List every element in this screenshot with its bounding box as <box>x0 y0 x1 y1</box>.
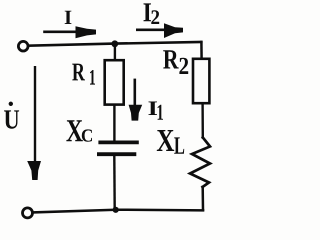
label R1 subscript 1 <box>90 70 95 85</box>
wire R2 to XL <box>201 104 204 138</box>
voltage arrow U shaft <box>34 66 36 163</box>
label R1 glyph R <box>72 64 85 81</box>
resistor R2 <box>193 59 209 103</box>
terminal top-left <box>18 41 28 51</box>
node top junction <box>111 40 118 47</box>
capacitor XC top plate <box>98 140 138 144</box>
voltage arrow U head <box>27 161 41 180</box>
node bottom junction <box>113 207 119 213</box>
current arrow I1 shaft <box>134 79 137 107</box>
label I <box>65 11 72 24</box>
label XC subscript C <box>82 129 92 141</box>
label XL glyph X <box>157 130 174 151</box>
wire R1 to capacitor <box>113 106 115 142</box>
current arrow I head <box>76 26 97 38</box>
label XC glyph X <box>66 120 82 141</box>
label I1 glyph I <box>148 102 156 115</box>
inductor XL zigzag <box>190 138 210 188</box>
label R2 subscript 2 <box>179 58 188 74</box>
wire bottom <box>33 210 203 213</box>
capacitor XC bottom plate <box>97 152 136 156</box>
wire top-right corner down to R2 <box>200 42 203 59</box>
current arrow I2 shaft <box>136 28 170 31</box>
label I2 glyph I <box>144 3 152 21</box>
current arrow I shaft <box>43 30 80 33</box>
label U glyph U <box>4 110 19 128</box>
resistor R1 <box>105 60 124 104</box>
current arrow I2 head <box>164 23 183 38</box>
label XL subscript L <box>174 137 184 153</box>
label U dot <box>9 102 13 106</box>
label I1 subscript 1 <box>158 105 163 120</box>
wire XL to bottom-right corner <box>201 187 204 210</box>
wire top (terminal to top-right corner) <box>29 42 202 46</box>
label R2 glyph R <box>163 50 179 68</box>
label I2 subscript 2 <box>151 10 159 24</box>
terminal bottom-left <box>23 208 33 218</box>
wire capacitor to bottom junction <box>113 156 116 210</box>
current arrow I1 head <box>129 105 143 121</box>
wire junction to R1 <box>114 44 116 60</box>
